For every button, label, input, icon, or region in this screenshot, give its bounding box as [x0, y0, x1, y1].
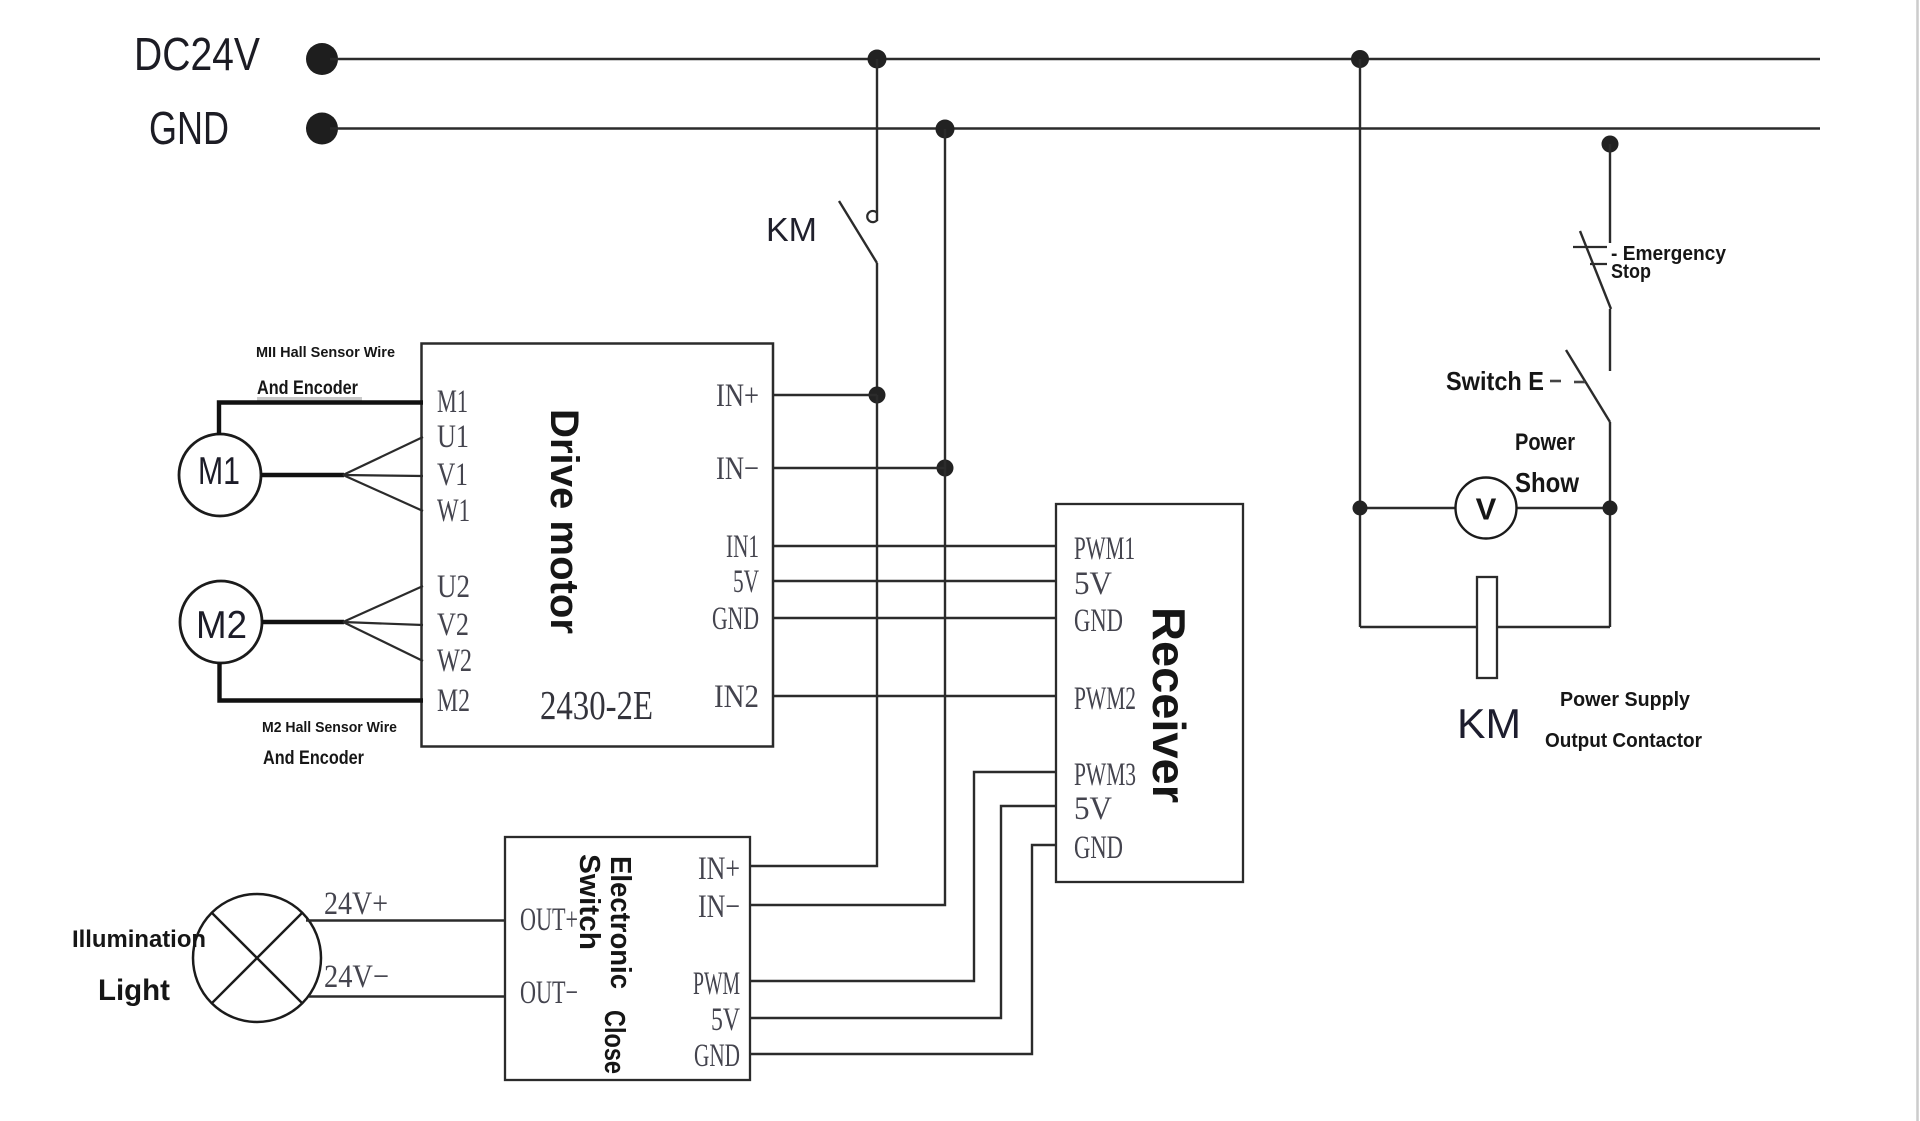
svg-text:And Encoder: And Encoder — [257, 378, 359, 399]
svg-text:U2: U2 — [437, 569, 470, 605]
wire M2 fan V2 — [343, 622, 423, 625]
svg-text:GND: GND — [694, 1038, 740, 1074]
motor M2 circle — [180, 581, 262, 663]
drive motor box — [422, 344, 774, 747]
svg-text:U1: U1 — [437, 419, 469, 455]
voltmeter V — [1456, 478, 1517, 539]
wire switch GND to receiver GND — [750, 845, 1056, 1054]
svg-text:PWM: PWM — [693, 966, 740, 1002]
wire DC24V right branch down — [1359, 59, 1361, 627]
svg-text:Output Contactor: Output Contactor — [1545, 730, 1702, 752]
svg-text:GND: GND — [1074, 603, 1123, 639]
svg-text:OUT+: OUT+ — [520, 902, 578, 938]
svg-text:GND: GND — [149, 102, 229, 154]
svg-text:M2: M2 — [196, 604, 247, 647]
electronic switch box — [505, 837, 750, 1080]
node GND / IN- branch — [936, 120, 955, 139]
svg-text:M1: M1 — [198, 450, 240, 493]
svg-text:PWM2: PWM2 — [1074, 681, 1136, 717]
svg-text:W2: W2 — [437, 643, 472, 679]
wire DC24V bus — [330, 58, 1820, 60]
wire KM coil bottom left — [1360, 626, 1477, 628]
svg-text:KM: KM — [766, 211, 817, 248]
KM contact blade — [839, 201, 877, 263]
wire IN- stub — [773, 467, 945, 469]
svg-text:Receiver: Receiver — [1143, 607, 1195, 803]
emergency stop blade — [1580, 231, 1611, 309]
svg-text:IN2: IN2 — [714, 679, 759, 715]
svg-text:Light: Light — [98, 974, 170, 1007]
node V meter right — [1603, 501, 1618, 516]
svg-text:GND: GND — [712, 601, 759, 637]
svg-text:MII Hall Sensor Wire: MII Hall Sensor Wire — [256, 344, 395, 361]
svg-text:IN−: IN− — [716, 451, 759, 487]
wire lamp to OUT+ — [306, 919, 505, 921]
wire M1 phase trunk (thick) — [261, 473, 344, 477]
node GND / emergency stop branch — [1602, 136, 1619, 153]
wire M1 hall sensor (thick) — [219, 403, 423, 436]
svg-text:Power: Power — [1515, 429, 1575, 456]
terminal dot DC24V — [306, 43, 338, 75]
svg-text:And Encoder: And Encoder — [263, 748, 365, 769]
wire switch PWM to receiver PWM3 — [750, 772, 1056, 981]
lamp cross stroke 1 — [212, 913, 302, 1003]
svg-text:KM: KM — [1457, 700, 1521, 747]
wire GND node down to electronic switch IN- — [750, 129, 945, 905]
svg-text:Close: Close — [598, 1010, 630, 1074]
svg-text:V1: V1 — [437, 457, 468, 493]
wire M1 fan W1 — [343, 475, 423, 511]
receiver box — [1056, 504, 1243, 882]
wire M2 fan U2 — [343, 586, 423, 622]
wire M1 hall sensor ghost artifact — [257, 397, 362, 401]
svg-text:5V: 5V — [1074, 791, 1112, 827]
wire M1 fan V1 — [343, 475, 423, 476]
switch E dash 1 — [1550, 380, 1561, 383]
lamp cross stroke 2 — [212, 913, 302, 1003]
wire GND branch to emergency stop — [1609, 144, 1611, 243]
svg-text:Stop: Stop — [1611, 261, 1651, 283]
wire IN1 to PWM1 — [773, 545, 1056, 547]
svg-text:M2 Hall Sensor Wire: M2 Hall Sensor Wire — [262, 719, 397, 736]
motor M1 circle — [179, 434, 261, 516]
svg-text:M1: M1 — [437, 384, 468, 420]
wire M2 hall sensor (thick) — [220, 663, 424, 701]
switch E blade — [1566, 350, 1610, 422]
node DC24V / KM branch — [868, 50, 887, 69]
svg-text:5V: 5V — [733, 564, 759, 600]
svg-text:2430-2E: 2430-2E — [540, 682, 653, 728]
wire switch 5V to receiver 5V — [750, 806, 1056, 1018]
node DC24V / right branch — [1351, 50, 1369, 68]
wire emergency stop to switch E — [1609, 309, 1611, 371]
wire IN+ node down to electronic switch IN+ — [750, 395, 877, 866]
svg-text:Electronic: Electronic — [604, 856, 636, 989]
svg-text:OUT−: OUT− — [520, 975, 578, 1011]
emergency stop tick 2 — [1590, 263, 1607, 265]
illumination light lamp — [193, 894, 321, 1022]
svg-text:IN+: IN+ — [698, 851, 740, 887]
wire KM coil bottom right — [1497, 626, 1610, 628]
svg-text:IN+: IN+ — [716, 378, 759, 414]
wire M2 phase trunk (thick) — [262, 620, 344, 624]
wire M2 fan W2 — [343, 622, 423, 661]
wire DC24V to KM contact — [876, 59, 878, 221]
switch E dash 2 — [1574, 381, 1585, 384]
KM contact hook — [867, 211, 877, 222]
wire KM contact to IN+ node — [876, 263, 878, 395]
svg-text:IN1: IN1 — [726, 529, 759, 565]
svg-text:Drive motor: Drive motor — [542, 409, 586, 634]
svg-text:V: V — [1476, 492, 1497, 527]
wire IN+ stub — [773, 394, 877, 396]
terminal dot GND — [306, 113, 338, 145]
wire lamp to OUT- — [309, 995, 505, 997]
page right edge artifact line — [1916, 0, 1919, 1121]
svg-text:Illumination: Illumination — [72, 926, 206, 953]
wire 5V to 5V — [773, 580, 1056, 582]
emergency stop tick 1 — [1573, 246, 1607, 248]
wire M1 fan U1 — [343, 437, 423, 475]
wire V meter left — [1360, 507, 1456, 509]
wire IN2 to PWM2 — [773, 695, 1056, 697]
node V meter left — [1353, 501, 1368, 516]
svg-text:IN−: IN− — [698, 889, 740, 925]
wire GND bus — [330, 127, 1820, 129]
svg-text:PWM1: PWM1 — [1074, 531, 1135, 567]
svg-text:24V−: 24V− — [324, 959, 389, 995]
svg-text:5V: 5V — [1074, 566, 1112, 602]
svg-text:PWM3: PWM3 — [1074, 757, 1136, 793]
svg-text:DC24V: DC24V — [134, 28, 260, 80]
svg-text:V2: V2 — [437, 607, 469, 643]
svg-text:GND: GND — [1074, 830, 1123, 866]
svg-text:24V+: 24V+ — [324, 886, 388, 922]
node IN+ junction — [869, 387, 886, 404]
svg-text:M2: M2 — [437, 683, 470, 719]
KM coil — [1477, 577, 1497, 678]
svg-text:Show: Show — [1515, 467, 1579, 498]
svg-text:Power Supply: Power Supply — [1560, 689, 1691, 711]
wire switch E down to V node — [1609, 422, 1611, 627]
wire GND to GND — [773, 617, 1056, 619]
node IN- junction — [937, 460, 954, 477]
svg-text:Switch E: Switch E — [1446, 366, 1544, 396]
wire V meter right — [1516, 507, 1610, 509]
svg-text:5V: 5V — [711, 1002, 740, 1038]
svg-text:W1: W1 — [437, 493, 470, 529]
